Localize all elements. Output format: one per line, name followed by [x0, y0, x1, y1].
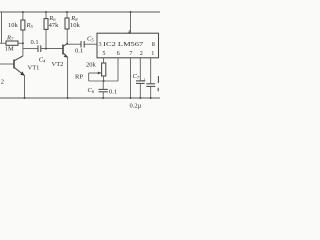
svg-text:3: 3 [98, 41, 101, 48]
svg-text:10k: 10k [70, 22, 81, 29]
wire bottom ground rail [0, 97, 160, 99]
svg-text:6: 6 [117, 50, 120, 57]
svg-text:+: + [142, 77, 146, 85]
svg-text:R5: R5 [26, 22, 34, 29]
svg-text:C6: C6 [88, 87, 95, 94]
wire pin 4 to supply rail [130, 12, 132, 33]
svg-text:47k: 47k [49, 22, 60, 29]
svg-text:8: 8 [152, 41, 155, 48]
svg-text:C4: C4 [39, 56, 46, 63]
node junction R6/base wire [45, 48, 47, 50]
svg-text:0.1: 0.1 [109, 88, 117, 95]
svg-text:7: 7 [129, 50, 132, 57]
svg-text:0.1: 0.1 [75, 47, 83, 54]
wire collector node to C5 [67, 43, 81, 45]
resistor R5 [21, 12, 25, 56]
svg-text:RP: RP [75, 73, 83, 80]
svg-text:1M: 1M [5, 46, 14, 53]
wire pin 7 to ground [130, 58, 132, 98]
wire pin 6 down [117, 58, 119, 81]
capacitor C7 [136, 58, 145, 98]
svg-text:0.1: 0.1 [30, 39, 38, 46]
resistor R7 [0, 41, 23, 45]
transistor VT1 [0, 56, 25, 98]
capacitor C5 [81, 41, 84, 48]
svg-text:IC2 LM567: IC2 LM567 [103, 41, 143, 48]
svg-text:4: 4 [128, 29, 131, 36]
svg-text:20k: 20k [86, 61, 97, 68]
resistor R6 [44, 12, 48, 49]
op-amp IC2 LM567 box [97, 33, 159, 58]
wire left edge vertical [1, 12, 3, 43]
svg-text:2: 2 [1, 79, 4, 86]
capacitor C6 [99, 81, 108, 98]
svg-text:0.2µ: 0.2µ [130, 103, 142, 110]
svg-text:5: 5 [102, 50, 105, 57]
node junction R8/VT2 collector/C5 [66, 43, 68, 45]
svg-text:VT1: VT1 [28, 65, 40, 72]
junction dots top rail [22, 11, 24, 13]
wire C4 tap from node column [23, 48, 38, 50]
wire C4 to VT2 base [41, 48, 63, 50]
svg-text:R7: R7 [6, 35, 14, 42]
wire RP bottom to pin 6 [89, 80, 118, 82]
junction dots bottom rail [24, 97, 26, 99]
svg-text:10k: 10k [8, 22, 19, 29]
resistor R8 [65, 12, 69, 44]
svg-text:C7: C7 [133, 73, 140, 80]
svg-text:2: 2 [140, 50, 143, 57]
potentiometer RP [89, 63, 106, 81]
svg-text:1: 1 [151, 50, 154, 57]
svg-text:VT2: VT2 [52, 61, 64, 68]
transistor VT2 [63, 44, 68, 98]
node junction R5/R7 [22, 42, 24, 44]
wire top supply rail [0, 11, 160, 13]
svg-text:C5: C5 [87, 36, 94, 43]
wire C5 to IC pin 3 [84, 43, 97, 45]
capacitor C8 polarized [146, 58, 155, 98]
capacitor C4 [38, 45, 41, 52]
partial marks right edge [157, 76, 159, 83]
node junction RP/C6 [103, 80, 105, 82]
wire pin 5 to RP [103, 58, 105, 63]
